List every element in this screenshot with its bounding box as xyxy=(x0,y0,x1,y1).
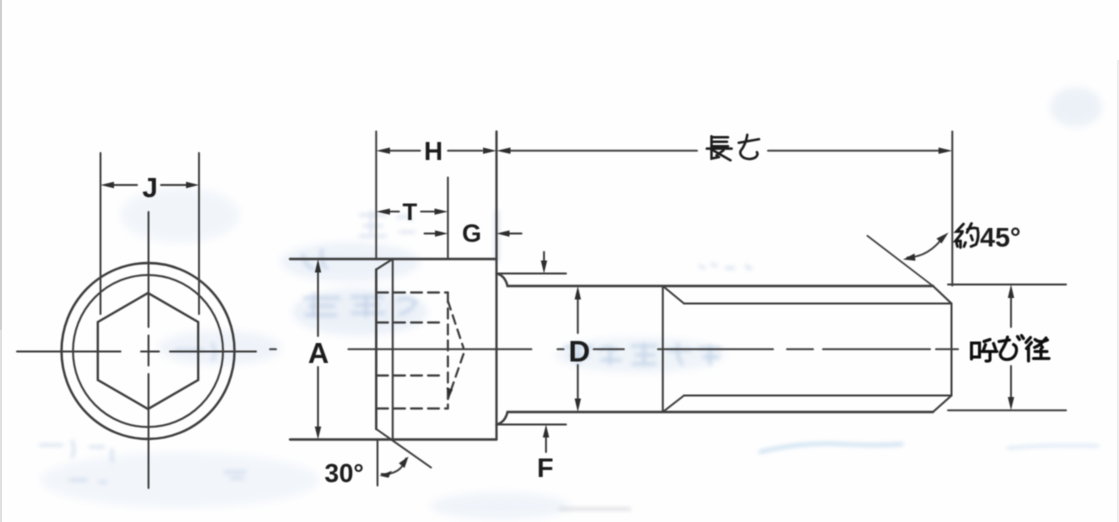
nominal dia dimension line xyxy=(1010,298,1012,327)
head left face xyxy=(375,270,377,430)
J extension line left xyxy=(100,153,102,314)
A dimension line xyxy=(317,272,319,336)
head outer circle xyxy=(62,263,235,439)
label yobikei kana び xyxy=(999,336,1024,360)
D arrow top xyxy=(575,286,581,300)
thread minor diameter top line xyxy=(684,303,952,305)
head bottom edge with A extension xyxy=(290,438,497,440)
T dimension line xyxy=(389,211,434,213)
45deg angle arc with arrows xyxy=(908,236,945,258)
hex socket hidden line: lower flat xyxy=(377,374,443,376)
J dimension line xyxy=(113,184,187,186)
tip chamfer lower xyxy=(933,396,952,413)
T extension line (socket depth) xyxy=(447,178,449,260)
small arrow mark at socket bottom xyxy=(446,388,453,399)
svg-text:H: H xyxy=(424,136,443,166)
svg-text:F: F xyxy=(537,453,554,483)
D dimension line xyxy=(577,299,579,333)
F arrow bottom xyxy=(545,437,547,452)
svg-text:30°: 30° xyxy=(325,458,364,488)
svg-text:J: J xyxy=(142,172,158,203)
G arrow left (outside pointing right) xyxy=(425,233,439,235)
T arrow left xyxy=(376,209,390,215)
tip chamfer upper xyxy=(933,286,952,304)
A arrow top xyxy=(315,259,321,273)
label yaku (approx.) kanji 約 xyxy=(956,224,979,248)
label nagasa (length) kanji 長 xyxy=(707,136,732,160)
F extension line bottom (fillet dia) xyxy=(497,424,567,426)
faint blue bleed-through artifacts xyxy=(40,87,1102,520)
label yobikei kanji 呼 xyxy=(972,340,998,362)
length arrow left xyxy=(497,148,511,154)
head right (bearing) face xyxy=(495,132,497,440)
J extension line right xyxy=(198,153,200,314)
chamfer extension diagonal xyxy=(867,236,933,286)
head chamfer boundary line xyxy=(392,259,394,440)
D arrow bottom xyxy=(575,399,581,413)
H arrow right xyxy=(483,148,497,154)
J dimension arrow left xyxy=(101,182,115,188)
30deg vertical reference line xyxy=(377,440,379,486)
30deg angle arc xyxy=(382,459,407,475)
svg-text:A: A xyxy=(308,338,329,370)
head chamfer inner circle xyxy=(73,275,223,427)
svg-text:45°: 45° xyxy=(980,223,1021,253)
nominal dia extension line top xyxy=(948,284,1066,286)
bolt centerline xyxy=(270,348,958,350)
socket cone lower hidden diagonal xyxy=(448,354,464,399)
pseudo bleed-through strokes (no fonts) xyxy=(303,212,497,316)
hex socket hidden line: socket top xyxy=(377,291,448,293)
hex socket outline xyxy=(98,293,198,409)
socket cone upper hidden diagonal xyxy=(448,301,464,348)
head bottom-left chamfer extended for 30 deg callout xyxy=(376,429,431,468)
horizontal centerline of end view xyxy=(17,351,256,353)
length dimension line xyxy=(510,150,939,152)
nominal dia extension line bottom xyxy=(948,409,1066,411)
A arrow bottom xyxy=(315,427,321,440)
shank bottom line xyxy=(497,412,934,425)
H extension line (head left) xyxy=(375,132,377,260)
F arrow top xyxy=(543,252,545,261)
H dimension line xyxy=(389,150,482,152)
nominal dia arrow top xyxy=(1008,285,1014,299)
thread minor diameter bottom line xyxy=(684,395,952,397)
socket depth hidden vertical xyxy=(447,293,449,409)
H arrow left xyxy=(376,148,390,154)
G arrow right (outside pointing left) xyxy=(508,233,522,235)
thread start vertical xyxy=(662,286,664,412)
J dimension arrow right xyxy=(186,182,199,188)
svg-text:D: D xyxy=(569,336,591,369)
length arrow right xyxy=(939,148,953,154)
F extension line top (fillet dia) xyxy=(497,273,567,275)
length extension line (tip) xyxy=(951,132,953,286)
label nagasa (length) kana さ xyxy=(739,135,759,159)
thread runout lower diagonal xyxy=(663,396,684,413)
shank top line xyxy=(497,274,934,287)
hex socket hidden line: socket bottom xyxy=(377,407,448,409)
T arrow right xyxy=(435,209,448,215)
head top edge with A extension xyxy=(290,258,497,260)
nominal dia arrow bottom xyxy=(1008,397,1014,410)
head top-left chamfer xyxy=(376,259,393,270)
vertical centerline of end view xyxy=(148,212,150,488)
label yobikei kanji 径 xyxy=(1026,338,1049,362)
svg-text:T: T xyxy=(403,199,418,226)
thread runout upper diagonal xyxy=(663,286,684,304)
hex socket hidden line: upper flat xyxy=(377,321,443,323)
tip end face xyxy=(951,304,953,396)
svg-text:G: G xyxy=(462,220,481,248)
